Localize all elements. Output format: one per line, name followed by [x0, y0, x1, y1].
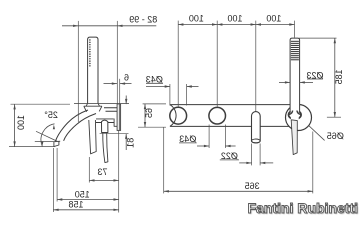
outlet reference line (side view)	[35, 141, 57, 143]
dimension Ø43 (circle 1)	[169, 84, 171, 106]
extension left (plate end)	[163, 128, 165, 194]
arrow right at 256	[251, 23, 256, 25]
arrow Ø43-1 left	[165, 85, 170, 87]
handle circle 1 Ø43 (front view)	[170, 107, 187, 124]
shower head hatch stripes (front view)	[291, 41, 299, 42]
extension line (6 right)	[119, 79, 121, 104]
shower handle strip (side view)	[89, 120, 96, 154]
handle circle 2 Ø43 (front view)	[209, 107, 226, 124]
arrow 365 left	[164, 190, 169, 192]
hand shower clip ring (front view)	[289, 110, 302, 119]
plate top line (side view)	[74, 103, 129, 105]
arrow at 178	[178, 23, 183, 25]
svg-text:Ø65: Ø65	[327, 131, 344, 141]
extension line (shower center)	[294, 21, 296, 38]
mirrored drawing group	[9, 14, 344, 213]
extension bottom	[138, 126, 166, 128]
extension (shower handle edge)	[88, 157, 90, 183]
arrow 185 bottom	[334, 112, 336, 117]
svg-text:82 - 99: 82 - 99	[129, 14, 157, 24]
arrow 25deg low	[41, 141, 43, 146]
extension (nozzle inner)	[56, 148, 58, 202]
spout inner curve (side view)	[64, 114, 96, 141]
arrow 81 top	[125, 99, 127, 104]
extension right (holder edge)	[312, 132, 314, 194]
arrow 100 top	[13, 104, 15, 109]
arrow Ø22 left	[246, 162, 251, 164]
dimension 100/100/100 (top, front view)	[178, 24, 294, 26]
extension bottom (outlet level)	[9, 146, 54, 148]
arrow 73 left	[89, 179, 94, 181]
spout cut face / aerator joint (side view)	[55, 140, 60, 143]
arrow 65 bottom	[144, 122, 146, 127]
extension bottom (holder centre)	[327, 116, 341, 118]
arrow 158 right	[114, 209, 119, 211]
extension line right (82-99)	[116, 21, 118, 104]
arrow 82-99 left	[73, 25, 78, 27]
underline Ø43-1	[146, 82, 163, 84]
extension line left (82-99)	[77, 21, 79, 122]
arrow 6 left	[112, 82, 117, 84]
arrow 6 right	[120, 82, 125, 84]
dimension Ø43 (circle 2)	[208, 125, 210, 149]
arrow 150 left	[57, 198, 62, 200]
arrow Ø43-2 left	[204, 145, 209, 147]
arrow Ø22 right	[260, 162, 265, 164]
arrow 82-99 right	[117, 25, 122, 27]
hand shower body (front view)	[290, 38, 300, 111]
spout outlet ellipse	[252, 139, 261, 143]
extension line (circle 1 center)	[177, 21, 179, 107]
svg-text:365: 365	[245, 181, 260, 191]
wall plate (side view)	[117, 104, 121, 130]
extension line (cap bottom)	[100, 133, 129, 135]
svg-text:81: 81	[125, 138, 135, 148]
arrow Ø23 right	[300, 81, 305, 83]
arrow 73 right	[114, 179, 119, 181]
svg-text:100: 100	[16, 115, 26, 130]
svg-text:100: 100	[189, 14, 204, 24]
shower grip flare (side view)	[86, 103, 99, 106]
handle lever blade (side view)	[103, 133, 108, 163]
extension (plate face, shared)	[118, 131, 120, 213]
dotted spray line (side shower)	[89, 39, 90, 40]
extension top (plate top level)	[11, 103, 71, 105]
svg-text:65: 65	[144, 108, 154, 118]
spout capsule Ø22 (front view)	[252, 112, 261, 143]
extension top	[143, 103, 166, 105]
extension (nozzle outer)	[52, 148, 54, 212]
svg-text:185: 185	[334, 69, 344, 84]
arrow 25deg high	[53, 125, 55, 130]
spout arm lines (side view)	[104, 108, 117, 112]
extension top (shower top)	[299, 37, 337, 39]
arrow 65 top	[144, 104, 146, 109]
arrow 81 bottom	[125, 134, 127, 139]
aerator nozzle (side view)	[54, 142, 59, 147]
svg-text:100: 100	[227, 14, 242, 24]
arrow 185 top	[334, 38, 336, 43]
leader line to Ø65 label	[308, 125, 324, 140]
hand shower handle (front view)	[291, 120, 297, 155]
extension line (capsule center)	[255, 21, 257, 111]
arrow right at 217	[212, 23, 217, 25]
dimension 82-99 (top, side view)	[62, 25, 156, 27]
underline Ø22	[220, 159, 239, 161]
holder escutcheon circle Ø65 (front view)	[286, 105, 312, 131]
arrow Ø43-2 right	[225, 145, 230, 147]
svg-text:158: 158	[68, 200, 83, 210]
arrow left at 217	[217, 23, 222, 25]
svg-text:6: 6	[124, 72, 129, 82]
arrow 158 left	[53, 209, 58, 211]
arrow 365 right	[308, 190, 313, 192]
dimension Ø22 (capsule)	[251, 144, 253, 166]
underline Ø43-2	[179, 142, 197, 144]
arrow Ø43-1 right	[187, 85, 192, 87]
extension line (circle 2 center)	[216, 21, 218, 107]
spout outer curve (side view)	[55, 110, 88, 142]
arrow at 294	[289, 23, 294, 25]
arrow left at 256	[256, 23, 261, 25]
svg-text:100: 100	[266, 14, 281, 24]
wall plate (front view)	[170, 105, 292, 127]
arrow 150 right	[114, 198, 119, 200]
dimension Ø23 (shower head)	[279, 81, 290, 83]
svg-text:150: 150	[75, 189, 90, 199]
handle cap (side view)	[102, 120, 108, 132]
watermark Fantini Rubinetti	[248, 200, 358, 216]
underline Ø23	[307, 78, 323, 80]
handle collar lines (side view)	[96, 118, 114, 120]
dimension 25 deg (outlet angle)	[36, 131, 58, 141]
arrow 100 bottom	[13, 141, 15, 146]
arrow Ø23 left	[285, 81, 290, 83]
hand shower (side view)	[88, 37, 98, 103]
svg-text:73: 73	[97, 167, 107, 177]
clip hook tips over body (front view)	[289, 111, 293, 115]
svg-text:25°: 25°	[44, 110, 58, 120]
shower holder cup (side view)	[84, 106, 102, 112]
